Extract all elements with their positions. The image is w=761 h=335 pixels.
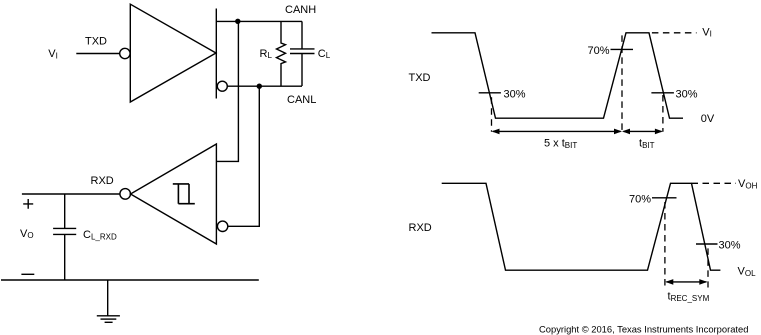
svg-text:tREC_SYM: tREC_SYM xyxy=(668,291,710,303)
svg-text:TXD: TXD xyxy=(85,36,107,48)
svg-text:VOL: VOL xyxy=(738,266,757,278)
svg-text:30%: 30% xyxy=(504,88,526,100)
svg-text:30%: 30% xyxy=(719,240,741,252)
svg-text:0V: 0V xyxy=(701,113,715,125)
svg-text:tBIT: tBIT xyxy=(639,138,655,150)
svg-text:RL: RL xyxy=(260,48,273,60)
svg-text:CL_RXD: CL_RXD xyxy=(83,229,117,241)
svg-text:70%: 70% xyxy=(587,45,609,57)
svg-text:VOH: VOH xyxy=(738,178,758,190)
svg-text:RXD: RXD xyxy=(409,222,432,234)
svg-text:CANL: CANL xyxy=(287,94,316,106)
svg-text:VI: VI xyxy=(702,26,712,38)
svg-text:RXD: RXD xyxy=(91,175,114,187)
svg-text:CL: CL xyxy=(318,48,331,60)
svg-text:TXD: TXD xyxy=(409,72,431,84)
svg-text:CANH: CANH xyxy=(285,4,316,16)
svg-text:VO: VO xyxy=(20,228,34,240)
svg-text:30%: 30% xyxy=(676,88,698,100)
svg-text:VI: VI xyxy=(48,48,58,60)
svg-text:5 x tBIT: 5 x tBIT xyxy=(544,138,577,150)
svg-text:70%: 70% xyxy=(629,193,651,205)
svg-text:Copyright © 2016, Texas Instru: Copyright © 2016, Texas Instruments Inco… xyxy=(539,323,748,334)
